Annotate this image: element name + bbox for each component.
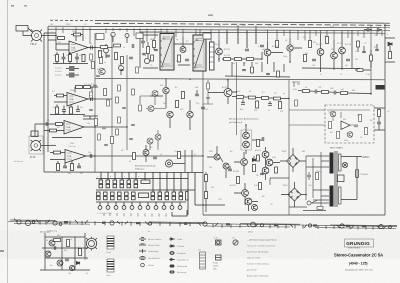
- wire: chain links y97: [232, 97, 289, 99]
- capacitor C240: [206, 97, 210, 98]
- resistor R150: [121, 57, 124, 64]
- capacitor C152: [142, 53, 146, 54]
- svg-text:C95: C95: [308, 185, 311, 187]
- resistor R163: [98, 134, 101, 140]
- svg-text:C7: C7: [364, 43, 366, 45]
- transistor T302: [331, 52, 338, 59]
- cord lever marks: [14, 219, 386, 230]
- svg-text:b: b: [110, 176, 111, 178]
- parts left of power: resistor R404: [205, 175, 208, 182]
- wire: center divider vertical: [202, 36, 204, 215]
- svg-text:TBA: TBA: [71, 47, 76, 50]
- wire: U103 ground parts: [52, 137, 82, 139]
- svg-text:n5: n5: [160, 154, 162, 156]
- wire: vertical bus x112: [111, 35, 113, 172]
- wire: left mid links: [150, 80, 190, 130]
- svg-text:2x: 2x: [148, 231, 150, 233]
- svg-text:4,7k: 4,7k: [258, 46, 262, 48]
- terminal circle row P11: [178, 206, 182, 210]
- resistor R169: [116, 129, 119, 135]
- svg-text:AC187: AC187: [222, 86, 228, 89]
- resistor R303: [304, 55, 307, 62]
- resistor chain R213: [237, 96, 244, 99]
- resistor RA1: [54, 239, 61, 242]
- svg-text:Motor: Motor: [248, 231, 253, 234]
- pulley wheel W14: [389, 226, 392, 229]
- switch contact pair S2: [106, 180, 110, 188]
- svg-text:R91: R91: [343, 119, 346, 121]
- wire: trimmer stems: [106, 37, 127, 75]
- pulley wheel W9: [251, 222, 256, 227]
- capacitor C153: [185, 59, 189, 61]
- svg-text:5k: 5k: [111, 47, 113, 49]
- switch icon block 1: [107, 236, 114, 249]
- wire: bus drops left: [56, 27, 90, 43]
- transistor T311: [347, 132, 353, 138]
- svg-text:Z-Diode: Z-Diode: [177, 246, 185, 248]
- svg-text:(4949 - 125): (4949 - 125): [349, 261, 367, 265]
- svg-text:2k2: 2k2: [243, 63, 246, 65]
- svg-text:220k: 220k: [72, 31, 76, 33]
- pulley wheel W12: [340, 224, 344, 228]
- resistor R141: [92, 62, 95, 69]
- svg-text:Lötöse: Lötöse: [148, 264, 155, 267]
- svg-text:4μ7: 4μ7: [64, 250, 67, 252]
- svg-text:BC238: BC238: [337, 43, 344, 45]
- resistor R151: [147, 42, 150, 58]
- frame: right border: [384, 24, 386, 215]
- svg-text:47k: 47k: [303, 37, 306, 39]
- resistor R313: [329, 122, 332, 129]
- svg-text:4k7: 4k7: [57, 127, 60, 129]
- svg-text:1μ: 1μ: [176, 39, 178, 41]
- svg-text:560: 560: [211, 187, 214, 189]
- transistor T230: [143, 150, 149, 156]
- svg-text:22k 0,1μ: 22k 0,1μ: [68, 146, 76, 148]
- switch contact pair S1: [99, 180, 103, 188]
- svg-text:3k9: 3k9: [305, 53, 308, 55]
- resistor R131 input: [54, 151, 61, 154]
- wire: top supply bus 4 partial: [140, 32, 385, 33]
- switch contact pair S6: [134, 180, 138, 188]
- wire: connector feed lines: [23, 31, 56, 136]
- wire: terminal stubs: [100, 202, 180, 206]
- legend symbol L1b: [139, 244, 146, 245]
- resistor R148: [99, 51, 102, 58]
- svg-text:1k: 1k: [360, 137, 362, 139]
- transistor T203: [287, 45, 293, 51]
- capacitor C146: [132, 44, 134, 48]
- transistor T407: [252, 205, 258, 211]
- meter icon M1: [216, 240, 222, 245]
- resistor R115 to ground: [70, 105, 73, 115]
- fuse F401: [356, 170, 359, 178]
- junction dots set: [94, 47, 95, 48]
- pulley wheel W4: [53, 221, 57, 225]
- switch contact pair S18: [172, 192, 176, 200]
- capacitor C115 to ground: [76, 106, 80, 112]
- capacitor C212: [201, 107, 205, 109]
- wire: T201 collector up: [218, 40, 220, 62]
- svg-text:560: 560: [57, 235, 60, 237]
- transistor T212 left: [167, 111, 173, 117]
- svg-text:1k: 1k: [53, 55, 55, 57]
- svg-text:22n: 22n: [68, 107, 71, 109]
- wire: dial cord second run: [10, 220, 397, 226]
- wire: right cluster stubs: [355, 44, 377, 70]
- wire: strip rail lower: [96, 201, 186, 203]
- switch icon block 2: [107, 259, 114, 272]
- svg-text:gezeichnet: gezeichnet: [247, 269, 257, 272]
- svg-text:TB-2: TB-2: [30, 42, 37, 46]
- mains plug box: [338, 175, 345, 182]
- svg-text:800: 800: [302, 151, 305, 153]
- wire: upper power links: [234, 147, 280, 180]
- capacitor C211: [195, 90, 199, 96]
- svg-text:10μ: 10μ: [89, 95, 92, 97]
- transistor T160: [152, 91, 158, 97]
- svg-text:gilt Stellung b: gilt Stellung b: [229, 121, 243, 124]
- capacitor C151: [141, 36, 145, 48]
- terminal circle row P7: [146, 206, 150, 210]
- resistor R132 to ground: [57, 161, 60, 171]
- frame: bottom border of left section: [44, 171, 203, 174]
- legend symbol L2e: [169, 265, 175, 267]
- transistor T303: [339, 47, 346, 54]
- cord small component boxes: [64, 221, 366, 227]
- svg-text:220k: 220k: [70, 90, 74, 92]
- svg-text:8,2: 8,2: [262, 92, 265, 94]
- wire: left edge power links: [203, 172, 225, 212]
- svg-text:Stereo-Cassenator 2C 5A: Stereo-Cassenator 2C 5A: [334, 253, 383, 258]
- svg-text:1k: 1k: [53, 107, 55, 109]
- transistor T401: [262, 151, 269, 158]
- resistor RA3: [79, 249, 82, 256]
- trimmer block R106: [69, 66, 75, 71]
- svg-text:220V~: 220V~: [363, 155, 371, 159]
- transformer core lines: [334, 151, 336, 207]
- svg-text:Stellung a: Stellung a: [135, 168, 145, 171]
- wire: misc links left-mid: [140, 96, 166, 150]
- resistor R403: [259, 183, 262, 190]
- svg-text:d: d: [138, 176, 139, 178]
- amp triangle A301: [341, 121, 350, 130]
- resistor R121 input: [50, 129, 57, 132]
- capacitor C230: [153, 157, 157, 159]
- capacitor C303 top right: [364, 28, 372, 32]
- svg-text:AD162: AD162: [255, 149, 261, 152]
- trimmer block R107: [69, 73, 75, 78]
- svg-text:1k: 1k: [129, 161, 131, 163]
- svg-text:3-0-0-0: 3-0-0-0: [55, 75, 62, 77]
- svg-text:2-0-0-0: 2-0-0-0: [55, 71, 62, 73]
- svg-text:TBA: TBA: [67, 155, 72, 158]
- svg-text:Toleranz ±20%: Toleranz ±20%: [247, 258, 260, 260]
- switch contact pair S11: [118, 192, 122, 200]
- svg-text:47k: 47k: [80, 107, 83, 109]
- trimmer TR3: [119, 66, 124, 71]
- resistor R101 input: [58, 37, 65, 40]
- resistor R409: [275, 167, 278, 173]
- svg-text:Kapazitäts-D.: Kapazitäts-D.: [177, 259, 189, 262]
- resistor chain R214: [249, 96, 256, 99]
- transistor T162: [155, 134, 161, 140]
- capacitor C402 elco: [307, 172, 311, 180]
- svg-text:4k7: 4k7: [330, 132, 333, 134]
- capacitor C163: [120, 69, 124, 70]
- resistor R203 series: [247, 58, 254, 61]
- wire: verticals top middle: [227, 28, 256, 48]
- transformer primary winding bar upper: [330, 153, 334, 174]
- capacitor C147: [106, 55, 110, 57]
- switch contact pair S17: [165, 192, 169, 200]
- transistor T152: [180, 47, 186, 53]
- parts right margin mid: [374, 108, 385, 130]
- capacitor C105 to ground: [75, 53, 79, 63]
- svg-text:680: 680: [352, 90, 355, 92]
- capacitor C215: [242, 69, 246, 70]
- svg-text:TBA: TBA: [66, 126, 71, 129]
- wire: ground rail under U101: [53, 63, 88, 65]
- capacitor C302: [346, 59, 350, 61]
- scan noise overlay: [8, 14, 400, 236]
- wire: U102 output: [88, 98, 95, 100]
- svg-text:C21: C21: [46, 120, 49, 122]
- svg-text:320: 320: [254, 110, 257, 112]
- resistor ladder R160 vertical: [210, 42, 215, 70]
- svg-text:2k2: 2k2: [163, 103, 166, 105]
- svg-text:AC187: AC187: [230, 184, 236, 187]
- transistor T141: [99, 68, 105, 74]
- resistor chain R215: [262, 97, 269, 100]
- svg-text:22n: 22n: [68, 173, 71, 175]
- wire: lower power links: [234, 183, 258, 211]
- svg-text:10μ: 10μ: [88, 152, 91, 154]
- svg-text:4k7: 4k7: [58, 42, 61, 44]
- wire: link row y68: [302, 67, 360, 70]
- svg-text:B30C: B30C: [283, 185, 288, 187]
- wire: bus drops middle: [106, 25, 290, 48]
- op-amp U101: [69, 41, 88, 54]
- svg-text:680: 680: [255, 63, 258, 65]
- capacitor C314: [377, 122, 381, 124]
- registration mark top left: [11, 5, 14, 7]
- switch contact pair S10: [111, 192, 115, 200]
- pilot lamp La401: [342, 162, 347, 167]
- svg-text:22μ: 22μ: [196, 103, 199, 105]
- transistor T223: [223, 163, 229, 169]
- svg-text:220k: 220k: [70, 143, 74, 145]
- wire: links to trimmer blocks: [66, 69, 79, 76]
- transistor TA1: [49, 240, 55, 246]
- capacitor C142: [102, 127, 106, 129]
- capacitor C165: [122, 107, 126, 108]
- svg-text:g: g: [180, 176, 181, 178]
- transistor T161: [148, 106, 154, 112]
- frame: main schematic left border: [47, 26, 49, 152]
- capacitor C201: [260, 45, 264, 47]
- wire: strip rail mid: [96, 189, 186, 191]
- switch contact pair S5: [127, 180, 131, 188]
- frame: bottom border of right section: [203, 214, 385, 216]
- resistor R133 to ground: [71, 161, 74, 171]
- wire: U101 feedback loop: [71, 35, 83, 42]
- svg-text:Pegel: Pegel: [213, 263, 218, 265]
- terminal circle row P1: [98, 206, 102, 210]
- transistor T202: [264, 49, 271, 56]
- registration mark top left 2: [24, 5, 27, 7]
- connector J2 DIN socket: [29, 136, 56, 154]
- svg-text:Fotodiode: Fotodiode: [177, 252, 187, 255]
- wire: divider-left stubs: [203, 80, 300, 104]
- resistor R166: [132, 89, 135, 95]
- resistor R102 feedback: [74, 33, 81, 36]
- svg-text:100: 100: [68, 273, 71, 275]
- svg-text:47k: 47k: [80, 173, 83, 175]
- legend symbol L2c: [169, 251, 175, 254]
- relay box K3: [203, 33, 211, 39]
- svg-text:Motorregler: Motorregler: [40, 231, 51, 234]
- diode D401: [252, 156, 255, 162]
- svg-text:C1: C1: [84, 24, 86, 26]
- wire: chain ground drops: [225, 62, 290, 77]
- wire: right margin mid stubs: [374, 108, 385, 130]
- svg-text:e: e: [152, 176, 153, 178]
- wire: vertical bus x127: [126, 55, 128, 150]
- resistor R211: [182, 92, 185, 99]
- wire: U103 output: [84, 126, 95, 128]
- wire: vertical bus x95: [94, 33, 96, 172]
- resistor R312: [341, 92, 348, 95]
- svg-text:Schaltplan-Nr. 4949 / 125 / 0: Schaltplan-Nr. 4949 / 125 / 02: [345, 268, 373, 271]
- resistor R405: [205, 192, 208, 199]
- svg-text:R103: R103: [66, 24, 71, 26]
- resistor R145: [111, 137, 114, 144]
- resistor R241: [295, 100, 298, 106]
- svg-text:2k2: 2k2: [99, 51, 102, 53]
- svg-text:Widerstand: Widerstand: [177, 265, 187, 268]
- pulley wheel W11: [308, 224, 311, 227]
- capacitor C311: [334, 91, 336, 95]
- capacitor C162: [104, 144, 108, 145]
- resistor R408: [257, 155, 260, 161]
- wire: dial cord parallel segment 1: [14, 223, 90, 226]
- page fold line left margin: [7, 0, 9, 283]
- svg-text:— Alle Spannungen gegen Masse: — Alle Spannungen gegen Masse: [247, 239, 278, 242]
- switch contact wide S14: [139, 193, 149, 198]
- capacitor C202: [245, 49, 249, 51]
- svg-text:56: 56: [249, 91, 251, 93]
- small box input network U103: [31, 131, 38, 137]
- terminal circle row P2: [106, 206, 110, 210]
- pulley wheel W2: [25, 220, 30, 225]
- resistor R304 right margin: [389, 52, 392, 59]
- pulley wheel W6: [110, 221, 114, 225]
- transistor T220: [243, 132, 250, 139]
- resistor R306: [370, 55, 373, 61]
- op-amp U103: [64, 121, 84, 135]
- capacitor C306: [375, 49, 379, 50]
- svg-text:1k: 1k: [54, 172, 56, 174]
- resistor R212: [176, 101, 179, 108]
- resistor R401: [253, 165, 256, 172]
- svg-text:22k: 22k: [209, 167, 212, 169]
- switch contact pair S4: [120, 180, 124, 188]
- tick row above dial cord (strip footer): [104, 213, 166, 217]
- capacitor C161: [89, 109, 93, 110]
- resistor R217: [256, 101, 259, 108]
- transistor T403: [262, 167, 269, 174]
- switch contact S401: [307, 201, 317, 206]
- capacitor C403: [260, 173, 264, 174]
- switch contact pair S13: [132, 192, 136, 200]
- resistor R105 to ground: [82, 55, 85, 62]
- transistor T210 driver: [224, 89, 232, 97]
- resistor R407: [317, 207, 323, 210]
- svg-text:470: 470: [180, 109, 183, 111]
- svg-text:BC238: BC238: [224, 49, 230, 51]
- svg-text:68k: 68k: [150, 39, 153, 41]
- capacitor C134 to ground: [63, 163, 67, 168]
- svg-text:n47: n47: [262, 49, 265, 51]
- svg-text:n47: n47: [341, 89, 344, 91]
- wire: between sliders: [174, 37, 193, 65]
- svg-text:bei Stereo: bei Stereo: [14, 160, 24, 163]
- wire: U101 output: [88, 47, 95, 49]
- resistor R202 series: [235, 58, 242, 61]
- svg-text:C81: C81: [318, 87, 321, 89]
- svg-text:10μ: 10μ: [89, 43, 92, 45]
- svg-text:22k: 22k: [174, 151, 177, 153]
- transistor T405: [242, 190, 249, 197]
- svg-text:n68: n68: [195, 87, 198, 89]
- resistor R146: [101, 46, 108, 49]
- resistor R307: [357, 69, 363, 72]
- capacitor C114 to ground: [62, 106, 66, 115]
- resistor R149: [115, 53, 118, 60]
- capacitor C305: [362, 51, 366, 52]
- resistor R240: [207, 83, 210, 89]
- wire: aux frame lines: [40, 233, 90, 270]
- switch contact pair S8: [97, 192, 101, 200]
- trimmer TR4: [125, 34, 129, 38]
- capacitor C216: [266, 73, 270, 74]
- resistor R111 input: [57, 94, 64, 97]
- trimmer TR1: [104, 48, 109, 53]
- wire: U102 inputs: [54, 96, 67, 103]
- switch contact pair S12: [125, 192, 129, 200]
- circular connector JA1: [86, 238, 96, 248]
- resistor R147: [114, 44, 121, 47]
- transistor T221: [243, 141, 250, 148]
- resistor R154: [151, 55, 154, 61]
- transistor T213: [187, 111, 193, 117]
- wire: top supply bus 3: [48, 29, 390, 30]
- svg-text:B30C: B30C: [282, 151, 287, 153]
- wire: mid vertical bus x289: [288, 80, 290, 215]
- transistor TA4: [69, 265, 74, 270]
- pulley wheel W1: [17, 220, 21, 224]
- pulley wheel W8: [203, 222, 207, 226]
- bridge rectifier BR401: [280, 148, 306, 172]
- resistor R103 to ground: [56, 52, 59, 64]
- svg-text:Taste: Taste: [106, 274, 111, 277]
- svg-text:100μ: 100μ: [283, 56, 287, 58]
- wire: dial cord parallel segment 3: [315, 228, 396, 229]
- svg-text:Steckkontakt: Steckkontakt: [148, 257, 160, 260]
- svg-text:1k: 1k: [340, 74, 342, 76]
- svg-text:1k: 1k: [70, 239, 72, 241]
